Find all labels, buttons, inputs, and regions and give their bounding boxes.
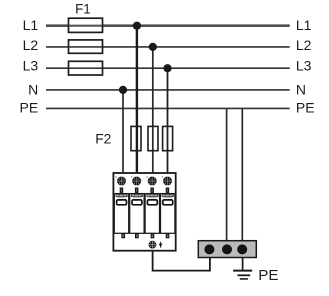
node N junction (119, 86, 127, 94)
SPD clamp slot 2 (135, 188, 138, 192)
SPD module position mark 1 (116, 176, 117, 177)
fuse F2b (L2 drop) (148, 126, 158, 150)
SPD module 4 (161, 194, 175, 234)
PE bar terminal 2 (222, 244, 232, 254)
ground symbol (233, 258, 252, 279)
fuse F2a (L1 drop) (131, 126, 141, 150)
svg-text:L1: L1 (23, 17, 39, 33)
SPD arrester body outline (113, 173, 175, 251)
SPD module 3 (145, 194, 159, 234)
wire N bus (46, 89, 290, 91)
svg-text:L2: L2 (23, 37, 39, 53)
SPD bottom clamp 2 (136, 234, 139, 238)
fuse F1b (L2) (69, 40, 103, 53)
svg-text:F1: F1 (75, 2, 91, 17)
wire N drop (122, 90, 124, 173)
wire SPD to PE bar (153, 251, 210, 271)
SPD terminal screw 2 (132, 177, 141, 186)
node L3 junction (163, 64, 171, 72)
SPD module 1 (114, 194, 128, 234)
PE bar terminal 3 (237, 244, 247, 254)
SPD module position mark 3 (146, 176, 147, 177)
svg-text:L3: L3 (296, 58, 312, 74)
PE bar terminal 1 (204, 244, 214, 254)
SPD bottom clamp 3 (151, 234, 154, 238)
wire PE drop right (241, 108, 243, 240)
SPD ground marker arrow (159, 242, 163, 248)
SPD module position mark 4 (162, 176, 163, 177)
SPD ground screw (149, 241, 157, 249)
SPD module position mark 2 (131, 176, 132, 177)
wire PE drop left (226, 108, 228, 240)
SPD terminal screw 3 (148, 177, 157, 186)
fuse F1c (L3) (69, 61, 103, 75)
svg-text:N: N (28, 81, 38, 97)
wire L1 drop (136, 26, 138, 173)
svg-text:N: N (296, 81, 306, 97)
wire L2 bus (46, 46, 290, 48)
SPD clamp slot 1 (120, 188, 123, 192)
SPD clamp slot 4 (166, 188, 169, 192)
fuse F1a (L1) (69, 18, 103, 32)
svg-text:L2: L2 (296, 37, 312, 53)
fuse F2c (L3 drop) (163, 126, 173, 150)
wire L2 drop (152, 47, 154, 173)
SPD module 2 (130, 194, 144, 234)
SPD bottom clamp 1 (122, 234, 125, 238)
PE equipotential bar (198, 241, 256, 258)
svg-text:L3: L3 (23, 58, 39, 74)
svg-text:PE: PE (258, 267, 278, 284)
svg-text:F2: F2 (95, 132, 111, 147)
wire L3 drop (167, 68, 169, 173)
wire L3 bus (46, 67, 290, 69)
node L1 junction (133, 22, 141, 30)
svg-text:PE: PE (20, 99, 39, 115)
svg-text:PE: PE (296, 99, 315, 115)
SPD bottom clamp 4 (166, 234, 169, 238)
node L2 junction (149, 43, 157, 51)
svg-text:L1: L1 (296, 17, 312, 33)
SPD terminal screw 4 (163, 177, 172, 186)
wire PE bus (46, 107, 290, 109)
SPD clamp slot 3 (151, 188, 154, 192)
wire L1 bus (46, 24, 290, 27)
SPD terminal screw 1 (117, 177, 126, 186)
